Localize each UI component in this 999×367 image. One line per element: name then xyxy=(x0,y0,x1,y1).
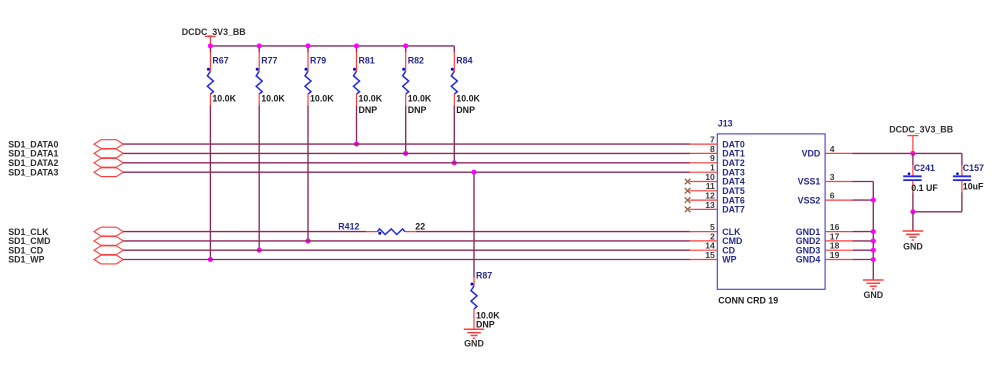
R67 refdes label xyxy=(212,55,228,65)
net label SD1_CD xyxy=(8,245,44,255)
svg-text:10.0K: 10.0K xyxy=(456,94,480,104)
no-connect X on pin 13 xyxy=(685,207,691,213)
svg-text:C157: C157 xyxy=(963,163,984,173)
ground symbol below caps xyxy=(903,231,924,252)
svg-text:DNP: DNP xyxy=(456,105,475,115)
net label SD1_DATA3 xyxy=(8,167,58,177)
svg-text:19: 19 xyxy=(830,250,840,260)
svg-text:DNP: DNP xyxy=(408,105,427,115)
no-connect X on pin 10 xyxy=(685,179,691,185)
junction: R79 to CMD net xyxy=(305,238,310,243)
junction: rail / R77 xyxy=(257,43,262,48)
net label DCDC_3V3_BB (top) xyxy=(182,27,246,37)
C241 value label 0.1 UF xyxy=(911,183,938,193)
R87 value label 10.0K / DNP xyxy=(476,311,500,330)
resistor R82 xyxy=(402,52,409,106)
junction: GND2 / bus xyxy=(871,238,876,243)
J13 pin 8 (DAT1) xyxy=(689,144,745,159)
svg-text:J13: J13 xyxy=(718,119,733,129)
svg-text:10uF: 10uF xyxy=(963,181,984,191)
svg-text:C241: C241 xyxy=(914,163,935,173)
wire SD1_CMD to J13 xyxy=(123,240,690,242)
J13 pin 12 (DAT6) xyxy=(689,191,745,206)
junction: DAT3 / R87 xyxy=(471,170,476,175)
junction: VSS2 / bus xyxy=(871,198,876,203)
svg-text:R412: R412 xyxy=(338,222,359,232)
J13 pin 10 (DAT4) xyxy=(689,172,745,187)
net label SD1_CLK xyxy=(8,227,49,237)
wire SD1_DATA3 to J13 xyxy=(123,171,690,173)
off-page connector SD1_DATA0 xyxy=(94,140,123,149)
svg-text:15: 15 xyxy=(705,250,715,260)
svg-text:13: 13 xyxy=(705,200,715,210)
R79 refdes label xyxy=(310,55,326,65)
junction: R77 to CD net xyxy=(257,248,262,253)
ground symbol below J13 xyxy=(863,280,884,300)
resistor R67 xyxy=(207,52,214,106)
svg-text:10.0K: 10.0K xyxy=(310,94,334,104)
wire: C157 bottom lead xyxy=(961,193,963,212)
J13 pin 18 (GND3) xyxy=(796,241,854,256)
J13 pin 7 (DAT0) xyxy=(689,135,745,150)
R81 refdes label xyxy=(359,55,375,65)
junction: rail / R79 xyxy=(305,43,310,48)
svg-text:SD1_WP: SD1_WP xyxy=(8,255,44,265)
R87 refdes label xyxy=(476,271,492,281)
wire: VSS/GND vertical bus xyxy=(872,182,874,281)
junction: R81 to DAT0 net xyxy=(354,142,359,147)
R81 value label 10.0K / DNP xyxy=(359,94,383,115)
off-page connector SD1_CLK xyxy=(94,227,123,236)
net label SD1_CMD xyxy=(8,236,51,246)
resistor R77 xyxy=(256,52,263,106)
wire: VDD to power node xyxy=(853,152,962,154)
svg-text:SD1_DATA3: SD1_DATA3 xyxy=(8,167,58,177)
J13 pin 4 (VDD) xyxy=(802,144,854,159)
svg-text:R81: R81 xyxy=(359,55,375,65)
svg-text:VDD: VDD xyxy=(802,149,821,159)
J13 part label CONN CRD 19 xyxy=(718,296,778,306)
R412 refdes label xyxy=(338,222,359,232)
svg-text:R87: R87 xyxy=(476,271,492,281)
wire: R67 column from rail to WP line xyxy=(209,46,211,260)
junction: GND4 / bus xyxy=(871,257,876,262)
svg-text:DNP: DNP xyxy=(359,105,378,115)
off-page connector SD1_CD xyxy=(94,246,123,255)
off-page connector SD1_CMD xyxy=(94,237,123,246)
wire SD1_DATA0 to J13 xyxy=(123,143,690,145)
wire: R77 column from rail to CD line xyxy=(258,46,260,250)
wire: C157 top lead xyxy=(961,153,963,165)
svg-text:R79: R79 xyxy=(310,55,326,65)
junction: bottom rail / GND xyxy=(910,209,915,214)
off-page connector SD1_DATA2 xyxy=(94,158,123,167)
junction: R84 to DAT2 net xyxy=(452,160,457,165)
wire: R84 column from rail to DAT2 line xyxy=(453,46,455,163)
svg-text:3: 3 xyxy=(830,172,835,182)
off-page connector SD1_DATA1 xyxy=(94,149,123,158)
svg-text:10.0K: 10.0K xyxy=(359,94,383,104)
no-connect X on pin 12 xyxy=(685,197,691,203)
J13 pin 13 (DAT7) xyxy=(689,200,745,215)
R77 value label 10.0K xyxy=(261,94,285,104)
svg-text:VSS2: VSS2 xyxy=(798,195,821,205)
ground symbol below R87 xyxy=(464,329,485,348)
J13 pin 14 (CD) xyxy=(689,241,735,256)
R67 value label 10.0K xyxy=(212,94,236,104)
J13 pin 19 (GND4) xyxy=(796,250,854,265)
svg-text:DNP: DNP xyxy=(476,320,495,330)
resistor R84 xyxy=(451,52,458,106)
capacitor C241 xyxy=(903,165,922,193)
wire: R79 column from rail to CMD line xyxy=(307,46,309,241)
svg-text:R77: R77 xyxy=(261,55,277,65)
wire: GND1 to vertical bus xyxy=(853,231,874,233)
svg-text:GND4: GND4 xyxy=(796,255,821,265)
off-page connector SD1_DATA3 xyxy=(94,168,123,177)
junction: VDD / C241 xyxy=(910,151,915,156)
junction: rail / R81 xyxy=(354,43,359,48)
svg-text:DAT7: DAT7 xyxy=(722,205,745,215)
svg-text:R67: R67 xyxy=(212,55,228,65)
J13 pin 16 (GND1) xyxy=(796,222,854,237)
svg-text:10.0K: 10.0K xyxy=(212,94,236,104)
C241 refdes label xyxy=(914,163,935,173)
wire: R82 column from rail to DAT1 line xyxy=(405,46,407,153)
svg-text:10.0K: 10.0K xyxy=(408,94,432,104)
J13 pin 5 (CLK) xyxy=(689,222,741,237)
wire SD1_DATA2 to J13 xyxy=(123,162,690,164)
wire: GND3 to vertical bus xyxy=(853,249,874,251)
net label SD1_DATA2 xyxy=(8,158,58,168)
wire: GND4 to vertical bus xyxy=(853,259,874,261)
resistor R412 (series on CLK) xyxy=(366,229,416,235)
net label DCDC_3V3_BB (right) xyxy=(889,125,953,135)
J13 refdes label xyxy=(718,119,733,129)
J13 pin 9 (DAT2) xyxy=(689,153,745,168)
C157 value label 10uF xyxy=(963,181,984,191)
wire: DAT3 to R87 xyxy=(473,172,475,278)
R84 value label 10.0K / DNP xyxy=(456,94,480,115)
J13 pin 3 (VSS1) xyxy=(798,172,854,187)
C157 refdes label xyxy=(963,163,984,173)
svg-text:GND: GND xyxy=(464,339,484,349)
wire: R81 column from rail to DAT0 line xyxy=(356,46,358,144)
junction: rail / R67 xyxy=(208,43,213,48)
capacitor C157 xyxy=(953,165,971,193)
svg-text:CONN CRD 19: CONN CRD 19 xyxy=(718,296,778,306)
svg-text:R84: R84 xyxy=(456,55,472,65)
svg-text:6: 6 xyxy=(830,191,835,201)
svg-text:VSS1: VSS1 xyxy=(798,177,821,187)
wire SD1_CD to J13 xyxy=(123,249,690,251)
junction: R67 to WP net xyxy=(208,257,213,262)
power symbol DCDC_3V3_BB (right) xyxy=(907,136,918,154)
wire SD1_DATA1 to J13 xyxy=(123,152,690,154)
R79 value label 10.0K xyxy=(310,94,334,104)
R412 value label 22 xyxy=(415,222,425,232)
wire: C241 top lead xyxy=(912,153,914,165)
wire: GND2 to vertical bus xyxy=(853,240,874,242)
junction: rail / R82 xyxy=(403,43,408,48)
J13 pin 17 (GND2) xyxy=(796,231,854,246)
J13 pin 15 (WP) xyxy=(689,250,736,265)
svg-text:0.1 UF: 0.1 UF xyxy=(911,183,938,193)
R84 refdes label xyxy=(456,55,472,65)
svg-text:22: 22 xyxy=(415,222,425,232)
power symbol DCDC_3V3_BB (top rail) xyxy=(205,36,216,46)
resistor R79 xyxy=(305,52,312,106)
net label SD1_DATA1 xyxy=(8,149,58,159)
no-connect X on pin 11 xyxy=(685,188,691,194)
svg-text:R82: R82 xyxy=(408,55,424,65)
wire: top power rail xyxy=(210,45,454,47)
svg-text:DCDC_3V3_BB: DCDC_3V3_BB xyxy=(182,27,246,37)
junction: GND3 / bus xyxy=(871,248,876,253)
svg-text:WP: WP xyxy=(722,255,736,265)
wire: bottom rail between caps xyxy=(913,211,962,213)
net label SD1_DATA0 xyxy=(8,139,58,149)
wire: VSS1 to vertical bus xyxy=(853,181,874,183)
J13 pin 11 (DAT5) xyxy=(689,181,745,196)
svg-text:GND: GND xyxy=(903,242,923,252)
J13 pin 6 (VSS2) xyxy=(798,191,854,206)
resistor R87 xyxy=(471,278,478,330)
junction: GND1 / bus xyxy=(871,229,876,234)
wire: to cap ground xyxy=(912,212,914,231)
R77 refdes label xyxy=(261,55,277,65)
R82 refdes label xyxy=(408,55,424,65)
svg-text:DCDC_3V3_BB: DCDC_3V3_BB xyxy=(889,125,953,135)
svg-text:GND: GND xyxy=(863,290,883,300)
J13 pin 2 (CMD) xyxy=(689,231,743,246)
resistor R81 xyxy=(353,52,360,106)
R82 value label 10.0K / DNP xyxy=(408,94,432,115)
junction: R82 to DAT1 net xyxy=(403,151,408,156)
wire: VSS2 to vertical bus xyxy=(853,199,874,201)
svg-text:4: 4 xyxy=(830,144,835,154)
wire: C241 bottom lead xyxy=(912,193,914,212)
connector J13 body xyxy=(717,134,825,289)
J13 pin 1 (DAT3) xyxy=(689,163,745,178)
off-page connector SD1_WP xyxy=(94,255,123,264)
net label SD1_WP xyxy=(8,255,44,265)
svg-text:10.0K: 10.0K xyxy=(261,94,285,104)
wire SD1_WP to J13 xyxy=(123,259,690,261)
wire SD1_CLK (left of R412) xyxy=(123,231,366,233)
wire SD1_CLK (right of R412) xyxy=(416,231,690,233)
